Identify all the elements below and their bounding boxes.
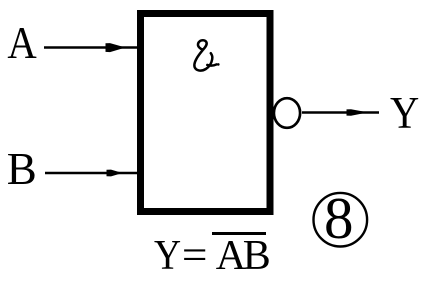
- arrowhead output Y: [347, 109, 369, 116]
- wire input B: [45, 172, 138, 175]
- svg-text:8: 8: [324, 185, 354, 251]
- wire input A: [44, 46, 138, 49]
- NAND gate U1 body: [141, 14, 271, 212]
- arrowhead input A: [106, 43, 126, 52]
- wire output Y: [302, 111, 379, 114]
- equation Y = overline(AB): [154, 232, 271, 279]
- svg-text:Y: Y: [390, 89, 419, 138]
- svg-text:Y: Y: [154, 232, 181, 278]
- svg-text:B: B: [243, 233, 271, 279]
- arrowhead input B: [107, 170, 123, 177]
- svg-text:B: B: [7, 144, 37, 194]
- svg-text:=: =: [182, 232, 208, 278]
- inversion bubble: [274, 98, 300, 128]
- svg-text:A: A: [7, 19, 36, 68]
- label & (AND function): [194, 40, 219, 70]
- figure number 8 (circled): [314, 185, 368, 251]
